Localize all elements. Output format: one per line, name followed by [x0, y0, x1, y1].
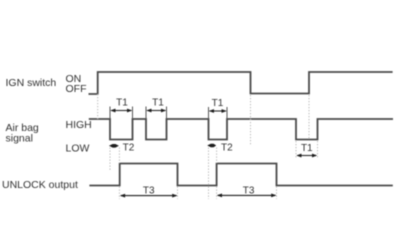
wire air bag signal waveform: [89, 119, 393, 140]
svg-text:T2: T2: [221, 143, 233, 154]
extension tick pulse1 left: [109, 107, 111, 120]
svg-text:signal: signal: [6, 133, 33, 145]
svg-text:T1: T1: [116, 98, 128, 109]
svg-text:T3: T3: [143, 186, 155, 197]
dotted T2-1 left: [109, 148, 111, 172]
dotted T3-2 left ext: [216, 187, 218, 200]
dotted T3-1 right ext: [177, 187, 179, 200]
dotted projection IGN fall: [250, 95, 252, 146]
extension tick pulse2 left: [145, 107, 147, 120]
T3 arrow 2: [217, 194, 277, 198]
dotted T3-2 right ext: [276, 187, 278, 200]
svg-text:UNLOCK output: UNLOCK output: [2, 179, 78, 191]
wire UNLOCK output waveform: [89, 164, 392, 186]
svg-text:IGN switch: IGN switch: [6, 77, 57, 89]
extension tick pulse2 right: [166, 107, 168, 120]
dotted pulse4 left: [295, 141, 297, 159]
dotted pulse4 right: [317, 141, 319, 159]
svg-text:OFF: OFF: [66, 83, 87, 95]
extension tick pulse1 right: [132, 107, 134, 120]
svg-text:T1: T1: [152, 98, 164, 109]
dotted T3-1 left ext: [118, 187, 120, 200]
T2 arrow 2: [207, 144, 216, 148]
T2 arrow 1: [109, 144, 119, 148]
svg-text:HIGH: HIGH: [66, 119, 92, 131]
extension tick pulse3 right: [226, 107, 228, 119]
wire IGN switch waveform: [89, 72, 393, 94]
T1 arrow pulse4: [296, 154, 317, 158]
dotted T2-2 left: [208, 148, 210, 200]
dotted projection IGN rise 1: [97, 94, 99, 119]
svg-text:T1: T1: [212, 98, 224, 109]
T1 arrow pulse1: [110, 109, 132, 113]
dotted T2-2 right / unlock rise 2: [216, 148, 218, 164]
extension tick pulse3 left: [208, 107, 210, 119]
svg-text:T2: T2: [123, 143, 135, 154]
T1 arrow pulse3: [209, 109, 227, 113]
T3 arrow 1: [120, 194, 178, 198]
T1 arrow pulse2: [146, 109, 166, 113]
dotted T2-1 right / unlock rise 1: [118, 148, 120, 164]
dotted projection IGN rise 2: [308, 95, 310, 140]
svg-text:T1: T1: [301, 143, 313, 154]
svg-text:LOW: LOW: [66, 143, 90, 155]
